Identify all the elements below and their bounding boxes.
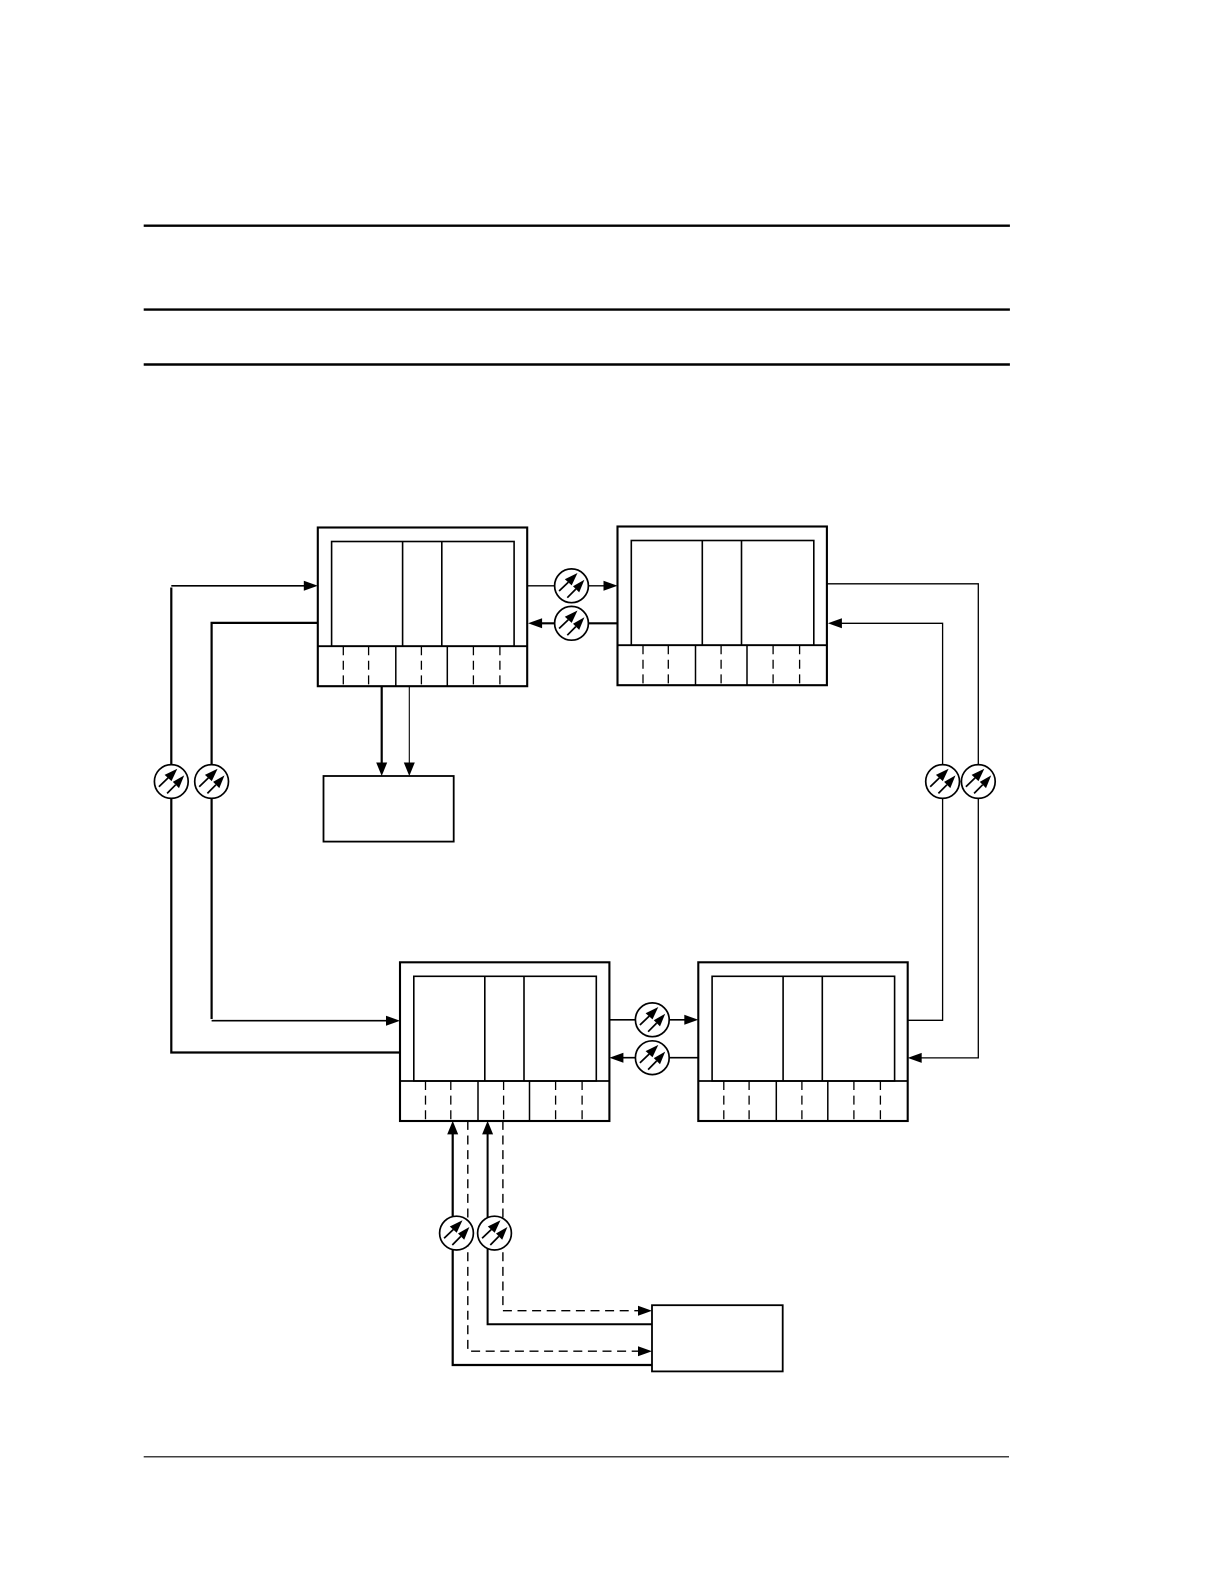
wire ring B: TR output to TL input (top) — [542, 622, 617, 624]
wire TL to management box left (thick) — [381, 686, 383, 763]
arrowhead up into BL port S1 — [447, 1121, 458, 1135]
header rule 2 — [144, 308, 1010, 310]
header rule 1 — [144, 224, 1010, 226]
arrowhead into BR right input — [908, 1053, 922, 1063]
wire bottom dashed D2: BL port to control box — [503, 1121, 639, 1311]
wire ring A: left vertical from BL output up to TL input — [171, 588, 400, 1053]
optical attenuator right pair outer — [961, 765, 995, 799]
optical attenuator right pair inner — [926, 765, 960, 799]
optical attenuator bottom pair A — [635, 1003, 669, 1037]
optical attenuator left pair outer — [154, 765, 188, 799]
wire ring A: BL output to BR input (bottom) — [609, 1019, 685, 1021]
wire ring B: right vertical from BR output up to TR input — [841, 623, 943, 1020]
arrowhead into TR right input — [828, 618, 842, 628]
wire bottom solid S1: control box to BL port — [453, 1134, 652, 1366]
footer rule — [144, 1456, 1009, 1458]
optical attenuator bottom pair B — [635, 1041, 669, 1075]
wire bottom solid S2: control box to BL port — [488, 1134, 652, 1324]
arrowhead into TL right input — [528, 618, 542, 628]
optical attenuator control pair left — [440, 1216, 474, 1250]
arrowhead down into management box right — [404, 763, 415, 777]
wire ring B: left vertical from TL output down to BL input — [212, 623, 318, 1019]
optical attenuator control pair right — [478, 1216, 512, 1250]
arrowhead into TR left input — [604, 581, 618, 591]
optical attenuator top pair A — [555, 569, 589, 603]
arrowhead up into BL port S2 — [482, 1121, 493, 1135]
wire TL to management box right (thin) — [408, 686, 410, 763]
wire bottom dashed D1: BL port to control box — [468, 1121, 639, 1351]
concentrator box BR — [698, 962, 907, 1121]
arrowhead into control box D1 — [638, 1346, 652, 1356]
arrowhead down into management box left — [376, 763, 387, 777]
concentrator box BL — [400, 962, 609, 1121]
optical attenuator left pair inner — [195, 765, 229, 799]
wire ring A: TL output to TR input (top) — [527, 585, 604, 587]
concentrator box TR — [618, 527, 827, 686]
wire ring B: BR output to BL input (bottom) — [623, 1057, 698, 1059]
arrowhead into BR left input — [684, 1015, 698, 1025]
wire ring A: right vertical from TR output down to BR input — [827, 584, 978, 1058]
arrowhead into BL left input — [386, 1016, 400, 1026]
arrowhead into control box D2 — [638, 1306, 652, 1316]
arrowhead into TL left input — [304, 581, 318, 591]
header rule 3 — [144, 363, 1010, 365]
management station box — [324, 776, 454, 842]
optical attenuator top pair B — [555, 606, 589, 640]
concentrator box TL — [318, 528, 527, 687]
arrowhead into BL right input — [609, 1053, 623, 1063]
network control station box — [652, 1305, 783, 1371]
